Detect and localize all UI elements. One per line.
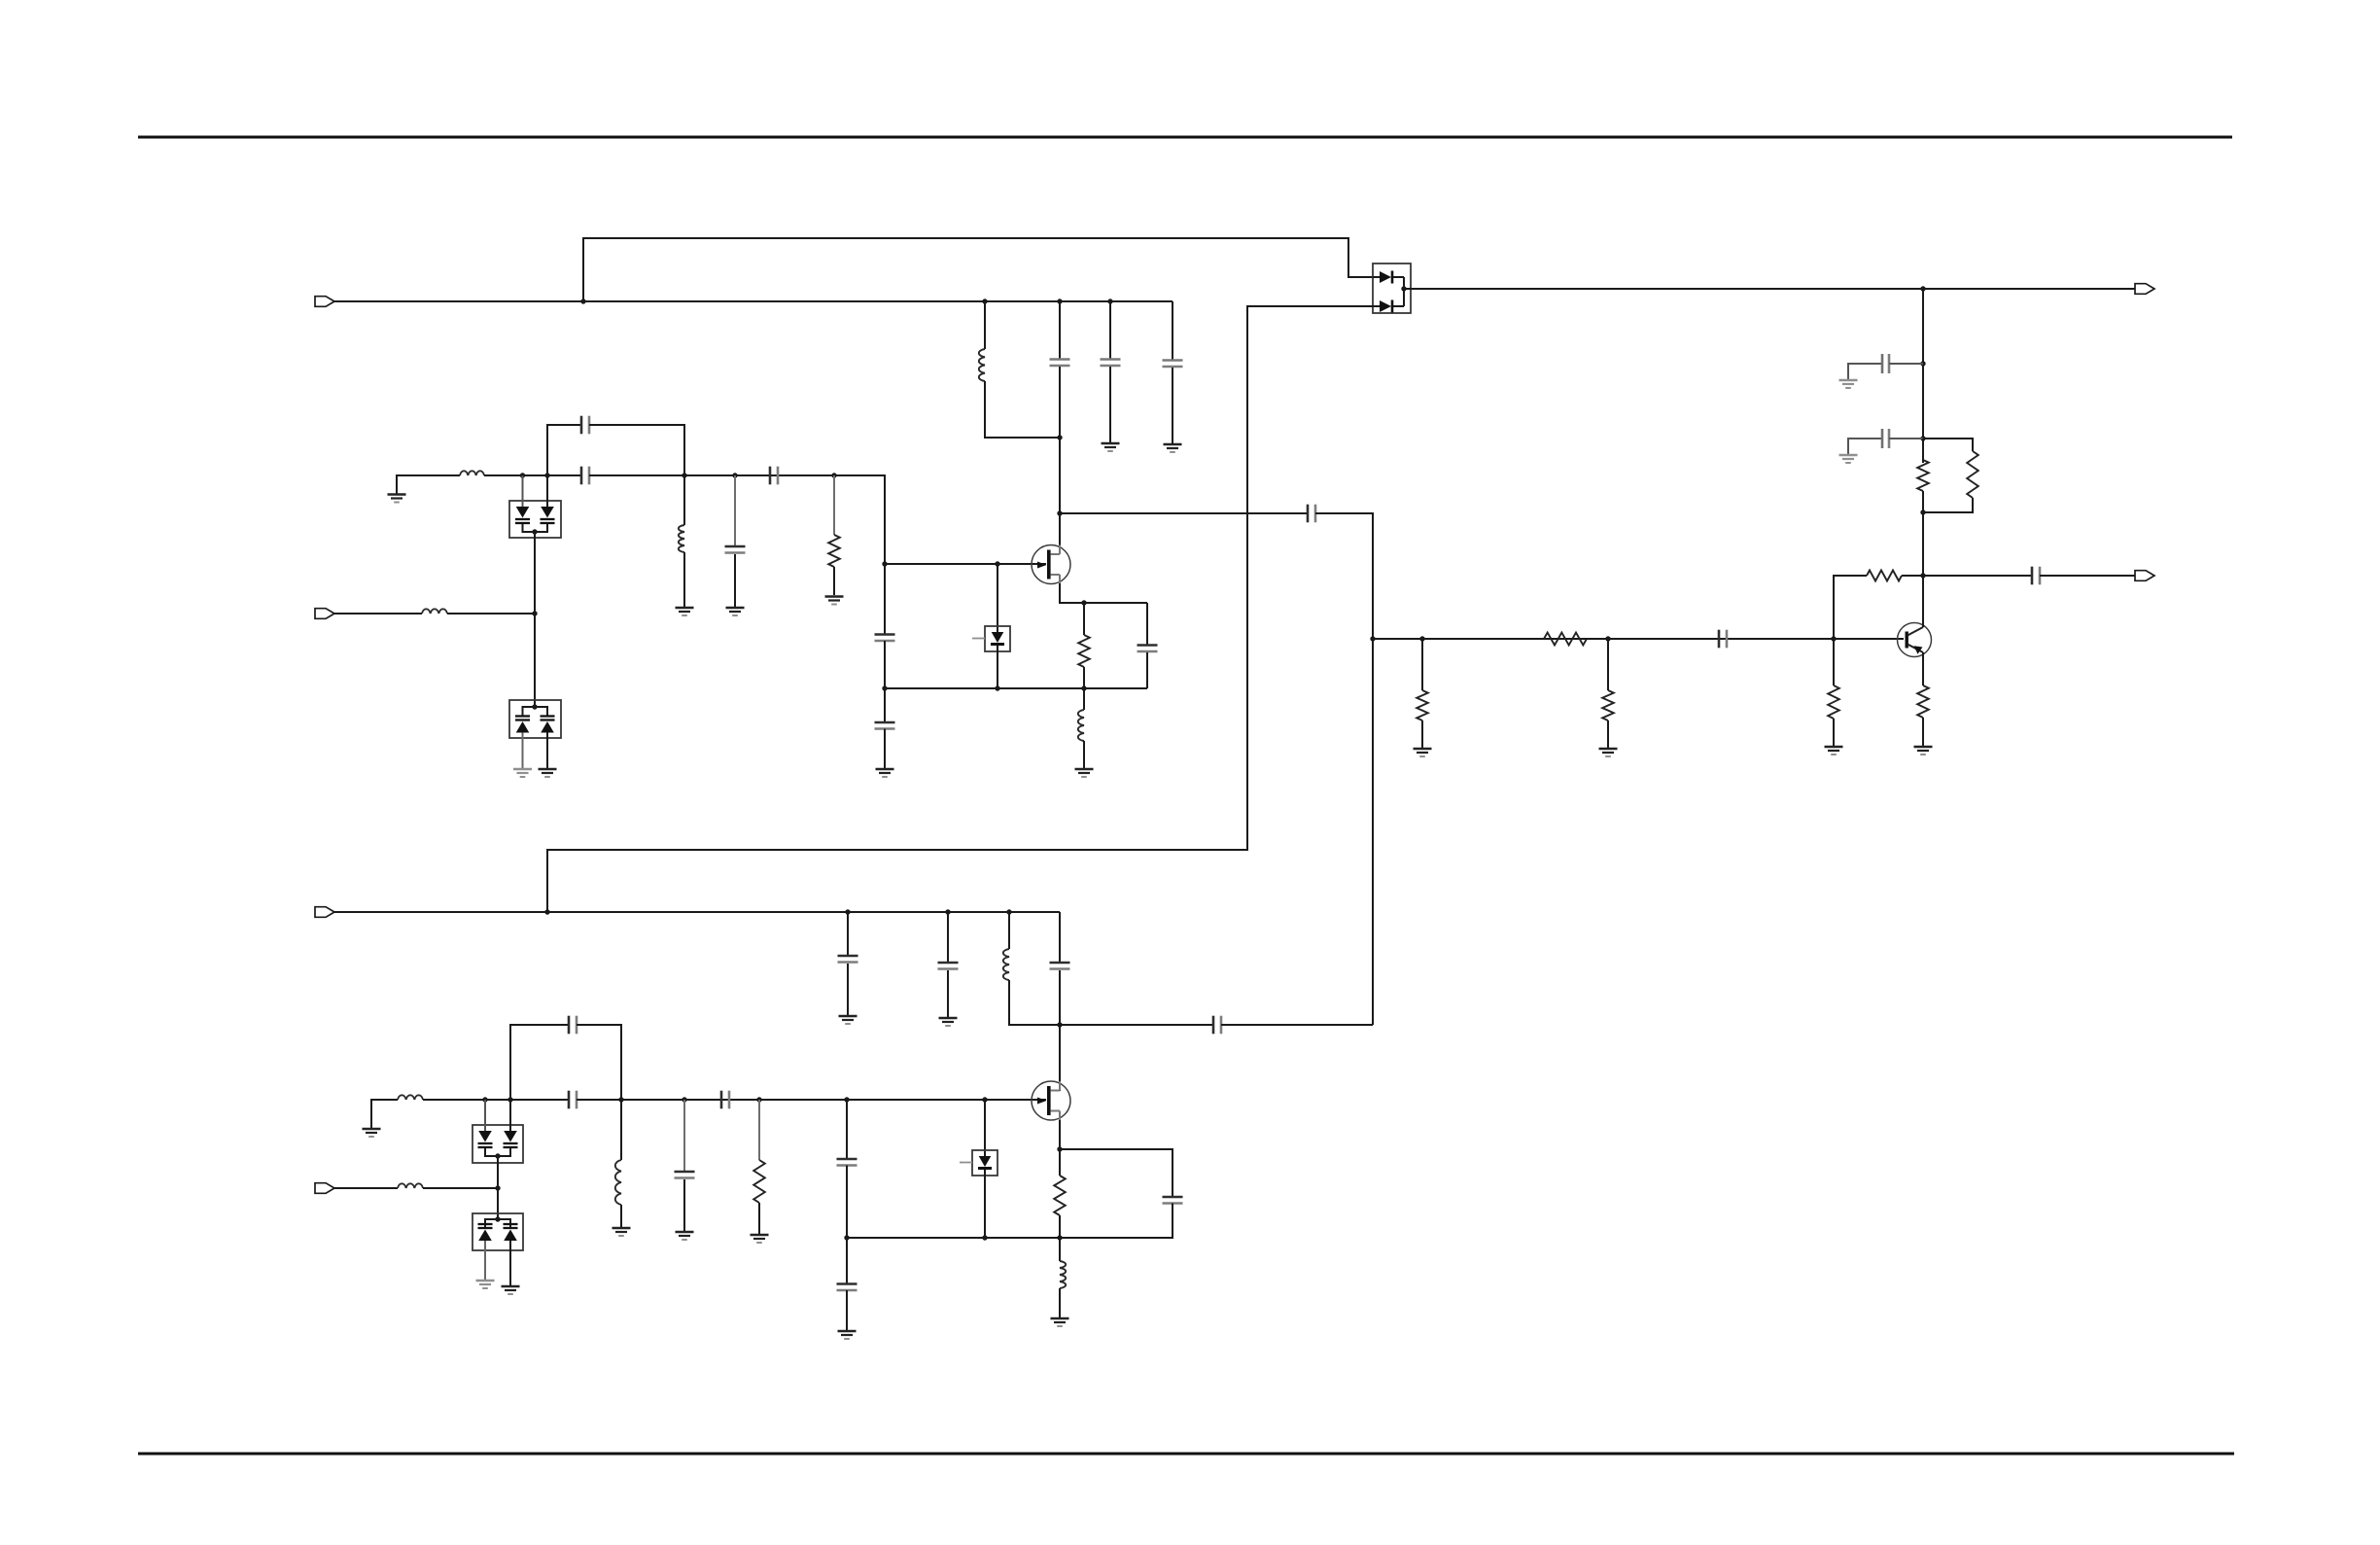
node drain feed junction bbox=[1057, 435, 1062, 439]
ground R3 bbox=[1414, 749, 1432, 756]
wire base line bbox=[1373, 638, 1904, 640]
node junction input1/C7 bbox=[1057, 298, 1062, 303]
node junction input1/top-rail bbox=[580, 298, 585, 303]
wire filter2 b bbox=[577, 1099, 1046, 1101]
wire C21 branch bbox=[847, 912, 849, 955]
ground R1 bbox=[825, 597, 844, 605]
wire C5 to ground bbox=[884, 729, 886, 769]
wire Q3 emitter lead bbox=[1922, 652, 1924, 685]
wire D1b top lead bbox=[546, 475, 548, 507]
wire input line 2 bbox=[334, 911, 1060, 913]
wire bridge C1 bbox=[547, 425, 581, 475]
port P3 (RF input 2) bbox=[315, 907, 334, 918]
wire R3 to ground bbox=[1421, 720, 1423, 748]
wire input line 1 bbox=[334, 300, 1172, 302]
node R4 tap bbox=[1605, 636, 1610, 641]
border rule top bbox=[138, 136, 2232, 139]
wire D6 bracket bbox=[485, 1148, 510, 1156]
ground filter1 left bbox=[388, 495, 406, 503]
wire C17 to ground bbox=[683, 1179, 685, 1231]
node tuning junction 2 bbox=[495, 1185, 500, 1190]
wire C12 left lead bbox=[1848, 364, 1883, 379]
wire L3 to ground bbox=[683, 552, 685, 607]
diode D8 (gate clamp) bbox=[978, 1156, 992, 1169]
wire R4 branch bbox=[1607, 639, 1609, 690]
wire C23 lower lead bbox=[1059, 970, 1061, 1091]
wire tuning line 1 bbox=[334, 613, 422, 614]
varactor D2b bbox=[541, 717, 555, 733]
wire L10 lower lead bbox=[1009, 980, 1060, 1025]
wire D1a top lead bbox=[522, 475, 524, 507]
capacitor C21 bbox=[838, 956, 858, 963]
node zener2 bottom bbox=[982, 1235, 987, 1240]
wire filter1 ground stub bbox=[397, 475, 460, 494]
wire tuning line 2 bbox=[334, 1187, 398, 1189]
wire R9 lower bbox=[1922, 491, 1924, 512]
wire rail vertical upper bbox=[1922, 289, 1924, 463]
node base feedback tap bbox=[1831, 636, 1836, 641]
transistor Q1 (MOSFET) body bbox=[1032, 545, 1070, 584]
diode D8 box bbox=[972, 1150, 997, 1176]
node D6 center bbox=[495, 1153, 500, 1158]
resistor R3 bbox=[1417, 690, 1428, 720]
node C22 tap bbox=[945, 909, 950, 914]
node zener bottom bbox=[995, 685, 999, 690]
wire C3 to ground bbox=[734, 554, 736, 607]
ground D7b bbox=[502, 1286, 520, 1294]
wire R8 branch bbox=[1833, 639, 1835, 685]
wire D6 center lead bbox=[497, 1156, 499, 1219]
ground L8 bbox=[612, 1228, 631, 1236]
wire C4/C5 chain bbox=[884, 564, 886, 634]
resistor R5 bbox=[1544, 633, 1587, 646]
node C21 tap bbox=[845, 909, 850, 914]
varactor D1b bbox=[541, 507, 555, 523]
wire zener D8 lower lead bbox=[984, 1170, 986, 1238]
capacitor C7 bbox=[1050, 360, 1070, 367]
wire L8 to ground bbox=[620, 1205, 622, 1227]
wire drain2 coupling bbox=[1060, 1024, 1213, 1026]
wire source2 to C20 bbox=[1060, 1149, 1172, 1197]
node R11 tap bbox=[756, 1097, 761, 1102]
wire L8 branch bbox=[620, 1100, 622, 1160]
wire diode cathode tie bbox=[1403, 277, 1405, 306]
node C12 tap bbox=[1920, 361, 1925, 366]
wire R7 to ground bbox=[1922, 718, 1924, 746]
wire bridge C1 right bbox=[589, 425, 684, 475]
capacitor C9 bbox=[1163, 361, 1183, 368]
node input2/riser bbox=[544, 909, 549, 914]
wire C18/C19 chain bbox=[846, 1100, 848, 1158]
wire C21 to ground bbox=[847, 964, 849, 1015]
transistor Q3 (BJT) body bbox=[1898, 623, 1932, 657]
ground C9 bbox=[1164, 444, 1182, 452]
resistor R2 bbox=[1078, 635, 1090, 667]
wire C13 right lead bbox=[1889, 438, 1923, 439]
capacitor C23 bbox=[1050, 963, 1070, 969]
wire R11 branch bbox=[758, 1100, 760, 1160]
node source line 2 left bbox=[844, 1235, 849, 1240]
node R9/R10 bottom bbox=[1920, 509, 1925, 514]
wire L9 to ground bbox=[1059, 1288, 1061, 1317]
diode pair U1 box bbox=[1373, 263, 1411, 313]
wire Q2 source bbox=[1059, 1120, 1061, 1149]
node drain/coupling junction bbox=[1057, 510, 1062, 515]
wire C24 to combiner bbox=[1221, 1024, 1373, 1026]
wire C3 branch bbox=[734, 475, 736, 545]
wire L5 branch bbox=[984, 301, 986, 349]
wire Q1 source bbox=[1060, 583, 1147, 603]
node collector bbox=[1920, 573, 1925, 578]
wire zener D3 lower lead bbox=[997, 646, 998, 688]
diode D4 (band switch, upper) bbox=[1373, 271, 1404, 284]
capacitor C24 bbox=[1213, 1016, 1221, 1035]
wire D2b ground lead bbox=[546, 733, 548, 769]
wire band-switch lower feed bbox=[547, 306, 1373, 912]
node L3 tap bbox=[682, 473, 686, 477]
wire RF output rail bbox=[1404, 288, 2135, 290]
wire C7 lower lead bbox=[1059, 367, 1061, 554]
resistor R12 bbox=[1054, 1176, 1066, 1215]
node junction input1/L5 bbox=[982, 298, 987, 303]
wire R2 upper lead bbox=[1083, 603, 1085, 635]
node varactor D1b tap bbox=[544, 473, 549, 477]
wire D6b top lead bbox=[509, 1100, 511, 1131]
node C17 tap bbox=[682, 1097, 686, 1102]
resistor R10 bbox=[1967, 451, 1978, 498]
port P1 (RF input 1) bbox=[315, 297, 334, 307]
wire R2 lower lead bbox=[1083, 667, 1085, 688]
ground C17 bbox=[676, 1232, 694, 1240]
ground D7a bbox=[476, 1281, 495, 1288]
capacitor C20 bbox=[1163, 1197, 1183, 1204]
node L8 tap bbox=[618, 1097, 623, 1102]
wire C22 to ground bbox=[947, 970, 949, 1017]
varactor pair D2 box bbox=[509, 700, 561, 738]
inductor L4 bbox=[1078, 710, 1084, 741]
varactor pair D7 box bbox=[472, 1213, 523, 1250]
capacitor C3 bbox=[725, 546, 746, 553]
capacitor C1x bbox=[770, 467, 778, 485]
wire D1 center lead bbox=[534, 532, 536, 614]
wire bridge C15 right bbox=[577, 1025, 621, 1100]
capacitor C15 bbox=[569, 1016, 577, 1035]
port P6 (IF output) bbox=[2135, 571, 2154, 581]
capacitor C11 bbox=[1719, 630, 1727, 649]
varactor pair D1 box bbox=[509, 501, 561, 538]
resistor R9 bbox=[1917, 460, 1929, 491]
node C13 tap bbox=[1920, 436, 1925, 440]
node source line 1 left bbox=[882, 685, 887, 690]
ground C12 bbox=[1839, 380, 1858, 388]
wire D2 bracket bbox=[523, 707, 548, 716]
capacitor C14 bbox=[2032, 567, 2040, 585]
wire L10 branch bbox=[1008, 912, 1010, 949]
node R3 tap bbox=[1419, 636, 1424, 641]
capacitor C19 bbox=[837, 1284, 857, 1291]
wire C4-C5 mid bbox=[884, 641, 886, 722]
wire D6a top lead bbox=[484, 1100, 486, 1131]
capacitor C15x bbox=[721, 1091, 729, 1109]
inductor L6 bbox=[398, 1095, 423, 1100]
diode D3 (gate clamp) bbox=[991, 632, 1004, 645]
node source2 junction bbox=[1057, 1146, 1062, 1151]
resistor R1 bbox=[828, 535, 840, 567]
ground R11 bbox=[751, 1235, 769, 1243]
resistor R6 bbox=[1867, 571, 1902, 581]
diode D8 left tab bbox=[960, 1162, 972, 1164]
varactor D7a bbox=[478, 1224, 493, 1241]
wire feedback riser bbox=[1834, 576, 1867, 639]
ground D2a bbox=[513, 769, 532, 777]
node C3 tap bbox=[732, 473, 737, 477]
node junction input1/C8 bbox=[1107, 298, 1112, 303]
wire C18-C19 mid bbox=[846, 1166, 848, 1284]
varactor D6b bbox=[504, 1131, 518, 1147]
wire collector output bbox=[1923, 575, 2032, 577]
wire C19 to ground bbox=[846, 1290, 848, 1330]
wire R12 lower lead bbox=[1059, 1215, 1061, 1238]
wire combiner vertical bbox=[1315, 513, 1373, 1025]
node gate2 left bbox=[844, 1097, 849, 1102]
wire C6 branch bbox=[1146, 603, 1148, 645]
diode D3 left tab bbox=[972, 638, 985, 640]
wire rail vertical lower bbox=[1922, 512, 1924, 576]
node R12 bottom bbox=[1057, 1235, 1062, 1240]
capacitor C17 bbox=[675, 1172, 695, 1178]
ground filter2 left bbox=[363, 1129, 381, 1137]
inductor L7 bbox=[398, 1183, 423, 1188]
wire L9 upper lead bbox=[1059, 1238, 1061, 1261]
inductor L8 bbox=[615, 1160, 621, 1205]
node D7 center bbox=[495, 1216, 500, 1221]
wire D7 bracket bbox=[485, 1219, 510, 1227]
capacitor C1 bbox=[581, 416, 589, 435]
ground R7 bbox=[1914, 747, 1933, 755]
wire L3 branch bbox=[683, 475, 685, 525]
node gate1 left bbox=[882, 561, 887, 566]
node diode output bbox=[1401, 286, 1406, 291]
node varactor D6b tap bbox=[507, 1097, 512, 1102]
node rail top bbox=[1920, 286, 1925, 291]
capacitor C22 bbox=[938, 963, 959, 969]
wire filter1 a bbox=[484, 474, 581, 476]
ground C3 bbox=[726, 608, 745, 615]
node tuning junction 1 bbox=[532, 611, 537, 615]
wire D7a ground lead bbox=[484, 1241, 486, 1280]
capacitor C12 bbox=[1882, 354, 1889, 373]
node D1 center bbox=[532, 529, 537, 534]
port P5 (RF output) bbox=[2135, 284, 2154, 295]
border rule bottom bbox=[138, 1453, 2234, 1456]
varactor pair D6 box bbox=[472, 1125, 523, 1163]
node varactor D6a tap bbox=[482, 1097, 487, 1102]
wire tuning line 1b bbox=[447, 613, 535, 614]
node combiner tap bbox=[1370, 636, 1375, 641]
wire L4 to ground bbox=[1083, 741, 1085, 768]
wire C23 branch bbox=[1059, 912, 1061, 962]
ground R4 bbox=[1599, 749, 1618, 756]
wire C22 branch bbox=[947, 912, 949, 962]
wire R12 upper lead bbox=[1059, 1149, 1061, 1176]
wire C12 right lead bbox=[1889, 363, 1923, 365]
wire C8 to ground bbox=[1109, 367, 1111, 442]
wire D7b ground lead bbox=[509, 1241, 511, 1285]
inductor L2 bbox=[422, 609, 447, 614]
wire R10 lower bbox=[1923, 498, 1973, 512]
resistor R8 bbox=[1828, 685, 1839, 719]
wire C9 to ground bbox=[1172, 368, 1173, 443]
wire C20 lower lead bbox=[847, 1204, 1172, 1239]
wire bridge C15 bbox=[510, 1025, 569, 1100]
wire filter2 ground stub bbox=[371, 1100, 398, 1128]
wire zener D8 upper lead bbox=[984, 1100, 986, 1156]
capacitor C18 bbox=[837, 1159, 857, 1166]
wire R1 to ground bbox=[833, 567, 835, 595]
node R1 tap bbox=[831, 473, 836, 477]
wire D2a ground lead bbox=[522, 733, 524, 769]
wire C13 left lead bbox=[1848, 439, 1883, 454]
inductor L10 bbox=[1003, 949, 1009, 980]
wire filter1 b bbox=[589, 475, 885, 565]
node gate2 zener tap bbox=[982, 1097, 987, 1102]
node D2 center bbox=[532, 704, 537, 709]
wire R3 branch bbox=[1421, 639, 1423, 690]
inductor L1 bbox=[460, 471, 484, 475]
ground C22 bbox=[939, 1018, 958, 1026]
wire top rail to band-switch diode bbox=[583, 238, 1373, 301]
wire tuning line 2b bbox=[423, 1187, 498, 1189]
capacitor C5 bbox=[875, 722, 895, 729]
wire L4 upper lead bbox=[1083, 688, 1085, 710]
wire C9 branch bbox=[1172, 301, 1173, 360]
wire C8 branch bbox=[1109, 301, 1111, 359]
wire to output port bbox=[2040, 575, 2135, 577]
ground C21 bbox=[839, 1016, 857, 1024]
ground C13 bbox=[1839, 455, 1858, 463]
port P4 (tuning voltage input 2) bbox=[315, 1183, 334, 1194]
resistor R4 bbox=[1602, 690, 1614, 720]
capacitor C13 bbox=[1882, 429, 1889, 448]
inductor L9 bbox=[1060, 1261, 1066, 1288]
wire C7 branch bbox=[1059, 301, 1061, 359]
ground D2b bbox=[539, 769, 557, 777]
ground L4 bbox=[1075, 769, 1094, 777]
ground L3 bbox=[676, 608, 694, 615]
transistor Q2 (MOSFET) body bbox=[1032, 1081, 1070, 1120]
capacitor C16 bbox=[569, 1091, 577, 1109]
wire gate line 1 bbox=[885, 563, 1046, 565]
capacitor C10 bbox=[1308, 505, 1315, 523]
ground C8 bbox=[1102, 443, 1120, 451]
wire R4 to ground bbox=[1607, 720, 1609, 748]
node drain2 junction bbox=[1057, 1022, 1062, 1027]
capacitor C6 bbox=[1137, 646, 1158, 652]
wire L5 lower lead bbox=[985, 381, 1060, 438]
wire drain1 coupling bbox=[1060, 512, 1308, 514]
capacitor C4 bbox=[875, 635, 895, 642]
wire filter2 a bbox=[423, 1099, 569, 1101]
varactor D6a bbox=[478, 1131, 493, 1147]
node R2/L4 bottom bbox=[1081, 685, 1086, 690]
ground L9 bbox=[1051, 1318, 1069, 1326]
inductor L3 bbox=[679, 525, 684, 552]
resistor R11 bbox=[753, 1160, 765, 1203]
diode D3 box bbox=[985, 626, 1010, 651]
ground C19 bbox=[838, 1331, 857, 1339]
port P2 (tuning voltage input 1) bbox=[315, 609, 334, 619]
wire R10 loop bbox=[1923, 439, 1973, 451]
varactor D7b bbox=[504, 1224, 518, 1241]
wire R11 to ground bbox=[758, 1203, 760, 1234]
node varactor D1a tap bbox=[520, 473, 525, 477]
varactor D2a bbox=[515, 717, 530, 733]
wire Q3 collector lead bbox=[1922, 576, 1924, 627]
wire R6 to collector bbox=[1902, 575, 1923, 577]
inductor L5 bbox=[979, 349, 985, 381]
varactor D1a bbox=[515, 507, 530, 523]
node gate1 zener tap bbox=[995, 561, 999, 566]
wire D1 bracket bbox=[523, 524, 548, 532]
capacitor C8 bbox=[1101, 360, 1121, 367]
capacitor C2 bbox=[581, 467, 589, 485]
diode D5 (band switch, lower) bbox=[1373, 300, 1404, 313]
ground C5 bbox=[876, 769, 894, 777]
node R2 top bbox=[1081, 600, 1086, 605]
wire R8 to ground bbox=[1833, 719, 1835, 746]
wire source line 1 bbox=[885, 687, 1147, 689]
wire D2 top lead bbox=[534, 614, 536, 707]
wire zener D3 leads bbox=[997, 564, 998, 632]
wire R1 branch bbox=[833, 475, 835, 535]
wire R9 leads bbox=[1922, 439, 1924, 460]
node L10 tap bbox=[1006, 909, 1011, 914]
ground R8 bbox=[1825, 747, 1843, 755]
wire C6 lower lead bbox=[1146, 652, 1148, 688]
wire C17 branch bbox=[683, 1100, 685, 1171]
resistor R7 bbox=[1917, 685, 1929, 718]
